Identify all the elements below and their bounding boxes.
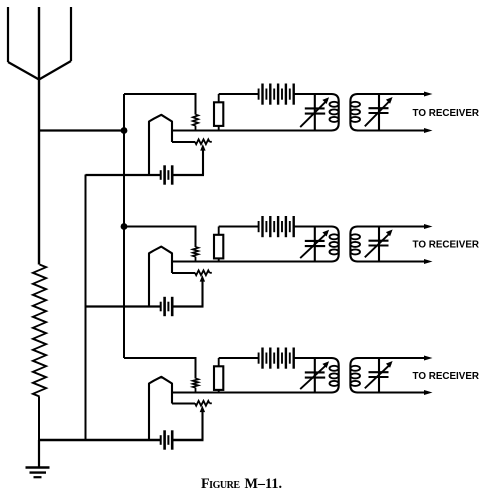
wire stage2 plate lead [172, 272, 195, 274]
wire stage3 condenser to B battery [218, 358, 220, 366]
wire stage1 B+ to tank [294, 93, 333, 95]
wire stage1 rheostat tap arrow [200, 144, 205, 151]
wire stage3 rheostat tap arrow [200, 406, 205, 413]
capacitor C22 (variable, secondary) [378, 227, 380, 262]
capacitor C31 (variable, primary) [314, 358, 316, 393]
triode V3 [149, 377, 172, 440]
wire stage2 resistor riser [195, 226, 197, 248]
capacitor C3g (grid condenser) [214, 366, 223, 390]
wire stage2 grid line [172, 261, 332, 263]
wire stage1 battery line [86, 174, 161, 176]
wire stage1 resistor to grid wire [195, 126, 197, 131]
node N1 (junction dot) [121, 127, 128, 134]
battery B1a (filament battery) [161, 165, 173, 184]
wire stage2 battery line [86, 305, 161, 307]
wire stage2 rheostat tap arrow [200, 275, 205, 282]
rheostat R13 [195, 401, 210, 406]
node N2 (junction dot) [121, 223, 128, 230]
wire stage2 condenser to B battery [218, 227, 220, 235]
capacitor C2g (grid condenser) [214, 235, 223, 259]
capacitor C32 (variable, secondary) [378, 358, 380, 393]
wire stage3 grid line [172, 392, 332, 394]
wire stage2 grid-feed top [124, 226, 196, 228]
antenna A1 [8, 7, 71, 80]
wire stage3 battery/ground line [39, 439, 161, 441]
wire stage3 grid-feed top [124, 357, 196, 359]
resistor R3 (grid leak) [193, 247, 198, 257]
triode V1 [149, 115, 172, 175]
svg-text:TO RECEIVER: TO RECEIVER [413, 240, 480, 251]
wire stage1 output top lead [357, 93, 426, 95]
rheostat R11 [195, 139, 210, 144]
capacitor C21 (variable, primary) [314, 227, 316, 262]
wire stage3 output top lead [357, 357, 426, 359]
inductor L3a (primary) [331, 358, 339, 393]
triode V2 [149, 247, 172, 307]
inductor L1a (primary) [331, 94, 339, 131]
ground [26, 440, 50, 477]
wire stage3 plate lead [172, 403, 195, 405]
wire bus B (battery return) [85, 175, 87, 442]
inductor L2a (primary) [331, 227, 339, 262]
battery B2a (filament battery) [161, 297, 173, 316]
svg-text:TO RECEIVER: TO RECEIVER [413, 108, 480, 119]
wire stage3 output bottom lead [357, 392, 426, 394]
wire stage1 resistor riser [195, 93, 197, 115]
wire stage2 B+ to tank [294, 226, 333, 228]
inductor L3b (secondary) [350, 358, 358, 393]
wire stage2 resistor to grid wire [195, 257, 197, 262]
battery B2b (plate battery) [259, 216, 294, 237]
wire stage1 grid line [172, 130, 332, 132]
wire stage1 plate lead [172, 141, 195, 143]
wire stage3 resistor riser [195, 357, 197, 379]
wire resistor to ground bus [38, 397, 40, 442]
wire stage1 output bottom lead [357, 130, 426, 132]
inductor L2b (secondary) [350, 227, 358, 262]
wire stage1 condenser to B battery [218, 94, 220, 102]
resistor R4 (grid leak) [193, 379, 198, 388]
wire bus A (grid feed) [123, 94, 125, 358]
wire stage3 resistor to grid wire [195, 388, 197, 393]
resistor R1 (antenna leak resistor) [33, 265, 46, 397]
wire stage2 output top lead [357, 226, 426, 228]
wire antenna tap [38, 129, 124, 131]
battery B3a (filament battery) [161, 430, 173, 449]
capacitor C11 (variable, primary) [314, 94, 316, 131]
wire antenna downlead [38, 79, 40, 265]
resistor R2 (grid leak) [193, 115, 198, 126]
battery B1b (plate battery) [259, 84, 294, 105]
wire stage2 output bottom lead [357, 261, 426, 263]
wire stage1 grid-feed top [124, 93, 196, 95]
inductor L1b (secondary) [350, 94, 358, 131]
wire stage3 B+ to tank [294, 357, 333, 359]
capacitor C12 (variable, secondary) [378, 94, 380, 131]
capacitor C1g (grid condenser) [214, 102, 223, 126]
battery B3b (plate battery) [259, 348, 294, 369]
svg-text:TO RECEIVER: TO RECEIVER [413, 371, 480, 382]
rheostat R12 [195, 270, 210, 275]
